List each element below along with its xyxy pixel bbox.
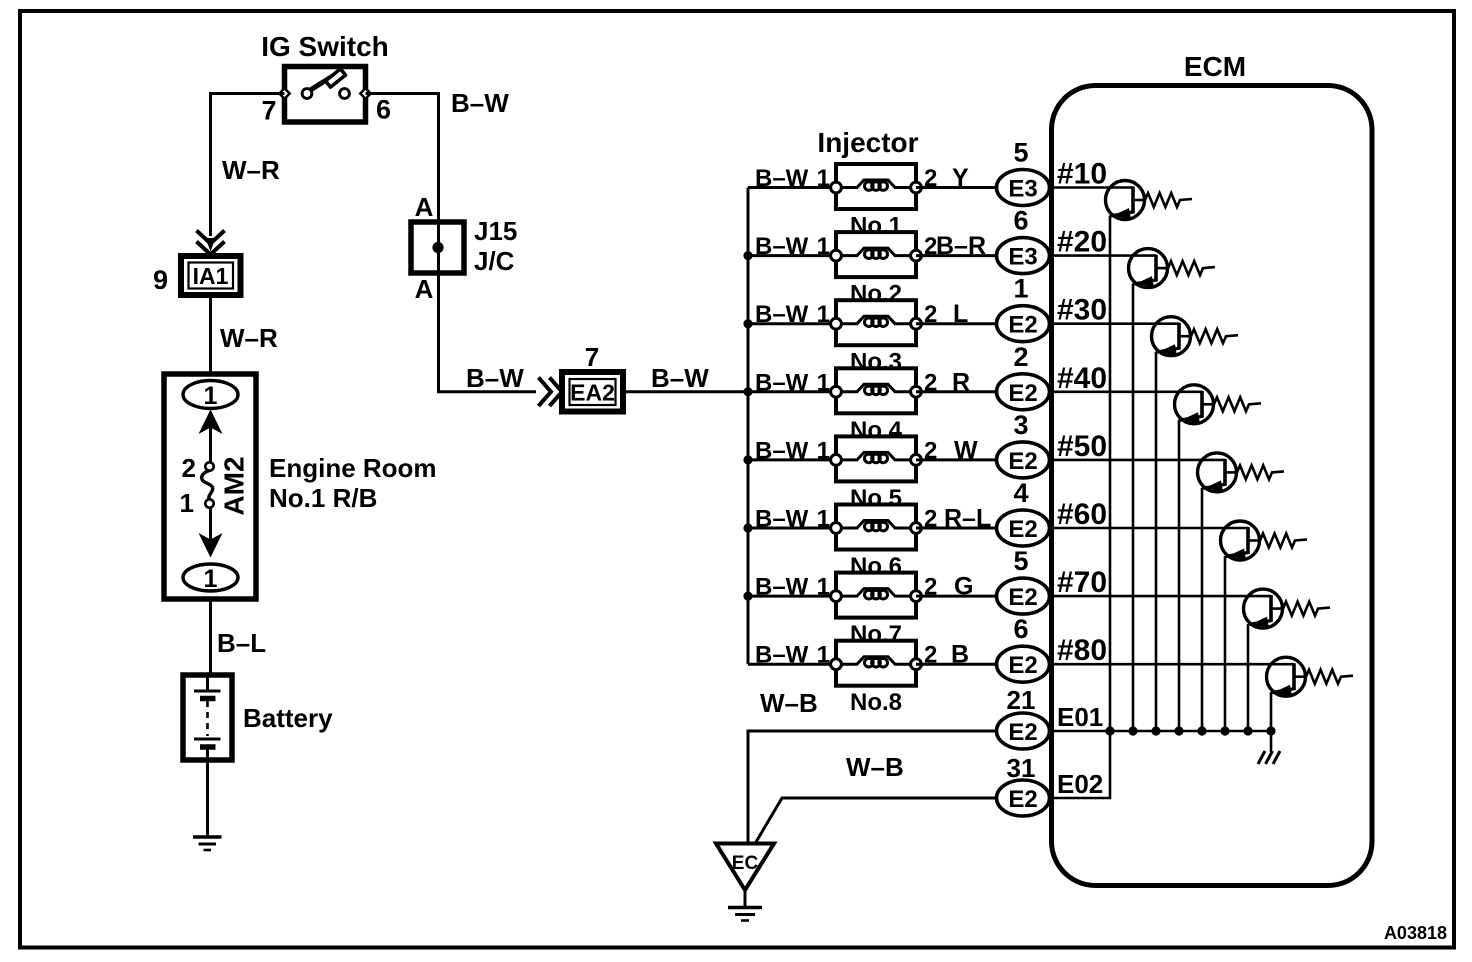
label Y (wire colour row 1) <box>952 164 969 192</box>
wire B-W bus to injector No.1 <box>748 186 836 189</box>
svg-text:B–W: B–W <box>755 437 809 464</box>
pin 9 label (IA1) <box>153 265 168 295</box>
svg-text:No.4: No.4 <box>850 417 903 444</box>
connector E2 (row 6) <box>997 510 1050 546</box>
pin 1 label (injector No.6) <box>817 506 830 533</box>
transistor Q6 (injector driver) <box>1221 521 1261 560</box>
wire emitter Q4 to E01 bus <box>1178 420 1181 731</box>
pin 1 label (injector No.7) <box>817 574 830 601</box>
wire B-W bus (vertical feed to all injectors) <box>747 188 750 665</box>
pin 1 label (injector No.3) <box>817 301 830 328</box>
connector E3 (row 1) <box>997 170 1050 206</box>
wire W-R: IG switch pin7 left then down to IA1 <box>206 94 285 252</box>
pin 1 label (injector No.5) <box>817 437 830 464</box>
svg-text:No.1 R/B: No.1 R/B <box>269 483 377 513</box>
svg-text:2: 2 <box>182 453 196 483</box>
pin 1 label (above connector E2) <box>1013 274 1028 304</box>
pin 2 label (injector No.2) <box>924 233 937 260</box>
pin 6 label (above connector E2) <box>1013 614 1028 644</box>
ECM block <box>1052 51 1373 886</box>
svg-text:1: 1 <box>204 565 218 593</box>
label B-W (row 2) <box>755 233 809 260</box>
transistor Q5 (injector driver) <box>1198 453 1238 492</box>
pin 31 label (E02) <box>1007 753 1036 783</box>
connector E2 (row 7) <box>997 578 1050 614</box>
pin #60 label (ECM) <box>1057 498 1107 531</box>
wire emitter Q5 to E01 bus <box>1201 488 1204 731</box>
svg-text:J15: J15 <box>474 216 517 246</box>
svg-text:E2: E2 <box>1008 380 1037 407</box>
wire R: injector No.4 to ECM <box>916 390 997 393</box>
svg-text:21: 21 <box>1007 685 1036 715</box>
svg-text:B–W: B–W <box>451 88 509 118</box>
wire E01 bus (emitters common) <box>1052 730 1271 733</box>
wire B–R: injector No.2 to ECM <box>916 254 997 257</box>
svg-text:1: 1 <box>817 642 830 669</box>
svg-text:No.5: No.5 <box>850 485 902 512</box>
resistor R1 (base resistor of Q1) <box>1145 193 1192 207</box>
wire emitter Q7 to E01 bus <box>1247 624 1250 731</box>
wire B-W: EA2 to injector bus <box>623 390 748 393</box>
svg-text:A: A <box>415 274 434 304</box>
svg-text:W: W <box>954 436 978 464</box>
pin 5 label (above connector E3) <box>1013 138 1028 168</box>
pin #10 label (ECM) <box>1057 158 1107 191</box>
connector arrows into IA1 (double chevron) <box>197 231 225 255</box>
label No.2 <box>850 281 902 308</box>
svg-text:B: B <box>951 641 969 669</box>
injector No.1 (solenoid coil L1) <box>831 164 922 209</box>
wire B-L: R/B to battery <box>209 599 212 675</box>
svg-text:1: 1 <box>1013 274 1028 304</box>
junction dot on bus row 6 <box>743 523 752 532</box>
junction connector J15 J/C <box>411 216 517 276</box>
svg-text:AM2: AM2 <box>219 456 250 515</box>
ground symbol below EC <box>728 890 762 921</box>
relay block Engine Room No.1 R/B <box>164 374 256 599</box>
wire W: injector No.5 to ECM <box>916 458 997 461</box>
connector E2 (row 4) <box>997 374 1050 410</box>
pin 1 label (injector No.8) <box>817 642 830 669</box>
injector No.4 (solenoid coil L4) <box>831 368 922 413</box>
svg-text:E01: E01 <box>1057 702 1103 732</box>
wire B-W bus to injector No.6 <box>748 527 836 530</box>
svg-text:R–L: R–L <box>944 505 991 533</box>
svg-text:1: 1 <box>204 382 218 410</box>
pin 1 label (injector No.1) <box>817 165 830 192</box>
connector E2 (E01 row) <box>997 713 1050 749</box>
wire L: injector No.3 to ECM <box>916 322 997 325</box>
svg-text:#10: #10 <box>1057 158 1107 191</box>
pin #70 label (ECM) <box>1057 566 1107 599</box>
label G (wire colour row 7) <box>954 573 973 601</box>
pin 2 label (fuse top) <box>182 453 196 483</box>
transistor Q1 (injector driver) <box>1106 181 1146 220</box>
svg-text:#40: #40 <box>1057 362 1107 395</box>
svg-text:1: 1 <box>817 165 830 192</box>
svg-text:Engine Room: Engine Room <box>269 453 437 483</box>
junction emitter Q2 on E01 bus <box>1128 726 1137 735</box>
connector arrows into EA2 (double chevron) <box>539 378 563 407</box>
svg-text:ECM: ECM <box>1184 51 1246 82</box>
pin 1 label (injector No.2) <box>817 233 830 260</box>
svg-text:B–W: B–W <box>466 363 524 393</box>
ground EC (body ground triangle) <box>716 844 774 891</box>
resistor R6 (base resistor of Q6) <box>1260 534 1307 548</box>
pin 7 label (EA2) <box>585 342 599 372</box>
svg-text:EC: EC <box>732 853 759 874</box>
svg-text:5: 5 <box>1013 138 1028 168</box>
ground (ECM internal, chassis) <box>1258 731 1280 764</box>
svg-text:7: 7 <box>585 342 599 372</box>
svg-text:6: 6 <box>376 95 391 125</box>
svg-text:9: 9 <box>153 265 168 295</box>
ground (battery) <box>193 837 222 850</box>
svg-text:No.6: No.6 <box>850 553 902 580</box>
svg-text:1: 1 <box>817 437 830 464</box>
wire E02 pin riser to E01 bus <box>1049 731 1110 798</box>
label B–R (wire colour row 2) <box>936 232 986 260</box>
pin #80 label (ECM) <box>1057 634 1107 667</box>
svg-text:E2: E2 <box>1008 448 1037 475</box>
label B (wire colour row 8) <box>951 641 969 669</box>
label W-R (lower) <box>220 323 278 353</box>
svg-text:E2: E2 <box>1008 652 1037 679</box>
label No.6 <box>850 553 902 580</box>
pin E01 label (ECM) <box>1057 702 1103 732</box>
svg-text:G: G <box>954 573 973 601</box>
resistor R4 (base resistor of Q4) <box>1214 397 1261 411</box>
svg-text:B–W: B–W <box>755 233 809 260</box>
label W-B (E01) <box>760 688 818 718</box>
node A (below J15) <box>415 274 434 304</box>
label Injector (title) <box>817 127 918 158</box>
transistor Q7 (injector driver) <box>1244 589 1284 628</box>
wire collector #30 pin to transistor Q3 <box>1049 322 1179 325</box>
resistor R8 (base resistor of Q8) <box>1306 670 1353 684</box>
terminal 1 (top oval) <box>183 381 238 411</box>
label No.8 <box>850 689 902 716</box>
pin #50 label (ECM) <box>1057 430 1107 463</box>
injector No.7 (solenoid coil L7) <box>831 573 922 618</box>
svg-text:#60: #60 <box>1057 498 1107 531</box>
wire collector #60 pin to transistor Q6 <box>1049 527 1248 530</box>
injector No.2 (solenoid coil L2) <box>831 232 922 277</box>
label No.5 <box>850 485 902 512</box>
transistor Q2 (injector driver) <box>1129 249 1169 288</box>
pin 2 label (injector No.6) <box>924 506 937 533</box>
svg-text:W–B: W–B <box>846 752 904 782</box>
wire emitter Q6 to E01 bus <box>1224 556 1227 731</box>
wire emitter Q1 to E01 bus <box>1109 216 1112 732</box>
wire R–L: injector No.6 to ECM <box>916 527 997 530</box>
wire emitter Q8 to E01 bus <box>1270 692 1273 731</box>
wire B-W bus to injector No.5 <box>748 458 836 461</box>
wire W-B: EC ground to E01 <box>748 731 997 844</box>
svg-text:1: 1 <box>817 369 830 396</box>
pin 6 label (IG switch) <box>376 95 391 125</box>
svg-text:6: 6 <box>1013 614 1028 644</box>
label B-W (row 4) <box>755 369 809 396</box>
svg-text:W–R: W–R <box>222 155 280 185</box>
pin #30 label (ECM) <box>1057 294 1107 327</box>
label No.4 <box>850 417 903 444</box>
svg-text:W–B: W–B <box>760 688 818 718</box>
pin #40 label (ECM) <box>1057 362 1107 395</box>
connector E3 (row 2) <box>997 238 1050 274</box>
svg-text:E3: E3 <box>1008 244 1037 271</box>
wire battery to ground <box>206 749 209 837</box>
svg-text:B–W: B–W <box>755 165 809 192</box>
resistor R3 (base resistor of Q3) <box>1191 329 1238 343</box>
connector E2 (row 8) <box>997 646 1050 682</box>
wire collector #20 pin to transistor Q2 <box>1049 254 1156 257</box>
label B-L <box>217 628 266 658</box>
injector No.5 (solenoid coil L5) <box>831 436 922 481</box>
pin 4 label (above connector E2) <box>1013 478 1028 508</box>
figure number A03818 <box>1384 923 1447 943</box>
wire B-W bus to injector No.4 <box>748 390 836 393</box>
svg-text:2: 2 <box>1013 342 1028 372</box>
transistor Q8 (injector driver) <box>1267 657 1307 696</box>
svg-text:W–R: W–R <box>220 323 278 353</box>
label R–L (wire colour row 6) <box>944 505 991 533</box>
wire B-W: IG switch pin6 right then down to J15 <box>366 94 439 223</box>
label B-W (row 5) <box>755 437 809 464</box>
connector IA1 <box>181 256 241 295</box>
svg-text:E2: E2 <box>1008 786 1037 813</box>
wire emitter Q3 to E01 bus <box>1155 352 1158 731</box>
svg-text:B–W: B–W <box>755 506 809 533</box>
svg-text:R: R <box>952 368 970 396</box>
wire E01 pin into ECM <box>1049 730 1052 733</box>
label B-W (before EA2) <box>466 363 524 393</box>
pin 2 label (injector No.3) <box>924 301 937 328</box>
svg-text:1: 1 <box>180 488 194 518</box>
svg-text:E3: E3 <box>1008 176 1037 203</box>
junction emitter Q3 on E01 bus <box>1151 726 1160 735</box>
svg-text:1: 1 <box>817 574 830 601</box>
svg-text:B–W: B–W <box>755 369 809 396</box>
fuse AM2 <box>202 462 214 507</box>
svg-text:B–L: B–L <box>217 628 266 658</box>
label B-W (row 1) <box>755 165 809 192</box>
node A (above J15) <box>415 192 434 222</box>
svg-text:1: 1 <box>817 506 830 533</box>
svg-text:IA1: IA1 <box>193 263 229 289</box>
wire B-W bus to injector No.3 <box>748 322 836 325</box>
svg-text:3: 3 <box>1013 410 1028 440</box>
label No.7 <box>850 621 902 648</box>
label L (wire colour row 3) <box>953 300 968 328</box>
svg-text:B–W: B–W <box>755 642 809 669</box>
wire B-W bus to injector No.7 <box>748 595 836 598</box>
resistor R7 (base resistor of Q7) <box>1283 602 1330 616</box>
svg-text:J/C: J/C <box>474 246 515 276</box>
svg-text:A03818: A03818 <box>1384 923 1447 943</box>
wire B-W bus to injector No.8 <box>748 663 836 666</box>
junction dot on bus row 3 <box>743 319 752 328</box>
pin 7 label (IG switch) <box>261 96 276 126</box>
svg-text:IG Switch: IG Switch <box>261 31 389 62</box>
junction emitter Q8 on E01 bus <box>1266 726 1275 735</box>
wire B-W bus to injector No.2 <box>748 254 836 257</box>
label W-R (upper) <box>222 155 280 185</box>
junction emitter Q7 on E01 bus <box>1243 726 1252 735</box>
junction emitter Q4 on E01 bus <box>1174 726 1183 735</box>
connector E2 (row 5) <box>997 442 1050 478</box>
pin 2 label (injector No.4) <box>924 369 937 396</box>
wire collector #80 pin to transistor Q8 <box>1049 663 1294 666</box>
svg-text:7: 7 <box>261 96 276 126</box>
svg-text:L: L <box>953 300 968 328</box>
wire G: injector No.7 to ECM <box>916 595 997 598</box>
injector No.8 (solenoid coil L8) <box>831 641 922 686</box>
svg-text:B–W: B–W <box>755 301 809 328</box>
junction dot on bus row 7 <box>743 592 752 601</box>
label AM2 (fuse name, rotated) <box>219 456 250 515</box>
pin 3 label (above connector E2) <box>1013 410 1028 440</box>
svg-text:E2: E2 <box>1008 584 1037 611</box>
label No.3 <box>850 349 902 376</box>
junction dot on bus row 2 <box>743 251 752 260</box>
svg-text:6: 6 <box>1013 206 1028 236</box>
pin E02 label (ECM) <box>1057 769 1103 799</box>
svg-text:E2: E2 <box>1008 516 1037 543</box>
label B-W (row 7) <box>755 574 809 601</box>
connector EA2 <box>562 372 623 412</box>
resistor R5 (base resistor of Q5) <box>1237 465 1284 479</box>
svg-text:No.7: No.7 <box>850 621 902 648</box>
svg-text:#50: #50 <box>1057 430 1107 463</box>
pin 2 label (injector No.7) <box>924 574 937 601</box>
svg-text:5: 5 <box>1013 546 1028 576</box>
pin 2 label (above connector E2) <box>1013 342 1028 372</box>
svg-text:B–W: B–W <box>651 363 709 393</box>
svg-text:B–R: B–R <box>936 232 986 260</box>
arrow up (to terminal 1) <box>199 410 223 463</box>
junction emitter Q5 on E01 bus <box>1197 726 1206 735</box>
svg-text:Y: Y <box>952 164 969 192</box>
wire Y: injector No.1 to ECM <box>916 186 997 189</box>
battery <box>183 675 333 760</box>
svg-text:4: 4 <box>1013 478 1028 508</box>
terminal 1 (bottom oval) <box>183 564 238 593</box>
switch SW IG Switch <box>261 31 389 122</box>
pin #20 label (ECM) <box>1057 226 1107 259</box>
injector No.6 (solenoid coil L6) <box>831 505 922 550</box>
wire B-W: J15 down and right to EA2 <box>439 273 537 392</box>
wire W-B: EC ground to E02 (diagonal) <box>756 798 997 842</box>
svg-text:#30: #30 <box>1057 294 1107 327</box>
label W (wire colour row 5) <box>954 436 978 464</box>
pin 2 label (injector No.5) <box>924 437 937 464</box>
label B-W (row 6) <box>755 506 809 533</box>
svg-text:A: A <box>415 192 434 222</box>
svg-text:B–W: B–W <box>755 574 809 601</box>
svg-text:Injector: Injector <box>817 127 918 158</box>
label B-W (row 8) <box>755 642 809 669</box>
injector No.3 (solenoid coil L3) <box>831 300 922 345</box>
svg-text:No.8: No.8 <box>850 689 902 716</box>
pin 21 label (E01) <box>1007 685 1036 715</box>
label R (wire colour row 4) <box>952 368 970 396</box>
pin 1 label (injector No.4) <box>817 369 830 396</box>
label No.1 <box>850 213 902 240</box>
svg-text:No.1: No.1 <box>850 213 902 240</box>
svg-text:E02: E02 <box>1057 769 1103 799</box>
transistor Q3 (injector driver) <box>1152 317 1192 356</box>
wire emitter Q2 to E01 bus <box>1132 284 1135 731</box>
resistor R2 (base resistor of Q2) <box>1168 261 1215 275</box>
pin 1 label (fuse bottom) <box>180 488 194 518</box>
arrow down (to bottom terminal 1) <box>199 507 223 558</box>
svg-text:EA2: EA2 <box>570 380 615 406</box>
wire B: injector No.8 to ECM <box>916 663 997 666</box>
pin 5 label (above connector E2) <box>1013 546 1028 576</box>
junction emitter Q6 on E01 bus <box>1220 726 1229 735</box>
label W-B (E02) <box>846 752 904 782</box>
wire W-R: IA1 to Engine Room R/B <box>209 295 212 374</box>
pin 2 label (injector No.8) <box>924 642 937 669</box>
connector E2 (E02 row) <box>997 780 1050 816</box>
label Engine Room No.1 R/B <box>269 453 437 513</box>
svg-text:#20: #20 <box>1057 226 1107 259</box>
svg-text:E2: E2 <box>1008 719 1037 746</box>
junction dot on bus row 4 <box>743 387 752 396</box>
transistor Q4 (injector driver) <box>1175 385 1215 424</box>
label B-W (after EA2) <box>651 363 709 393</box>
pin 6 label (above connector E3) <box>1013 206 1028 236</box>
wire collector #40 pin to transistor Q4 <box>1049 390 1202 393</box>
svg-text:#70: #70 <box>1057 566 1107 599</box>
label B-W (top right) <box>451 88 509 118</box>
wire collector #10 pin to transistor Q1 <box>1049 186 1133 189</box>
svg-text:No.2: No.2 <box>850 281 902 308</box>
svg-text:#80: #80 <box>1057 634 1107 667</box>
svg-text:E2: E2 <box>1008 312 1037 339</box>
wire collector #50 pin to transistor Q5 <box>1049 459 1225 462</box>
junction emitter Q1 on E01 bus <box>1105 726 1114 735</box>
pin 2 label (injector No.1) <box>924 165 937 192</box>
svg-text:No.3: No.3 <box>850 349 902 376</box>
label B-W (row 3) <box>755 301 809 328</box>
svg-text:Battery: Battery <box>243 703 333 733</box>
svg-text:1: 1 <box>817 233 830 260</box>
connector E2 (row 3) <box>997 306 1050 342</box>
wire collector #70 pin to transistor Q7 <box>1049 595 1271 598</box>
junction dot on bus row 5 <box>743 455 752 464</box>
svg-text:1: 1 <box>817 301 830 328</box>
